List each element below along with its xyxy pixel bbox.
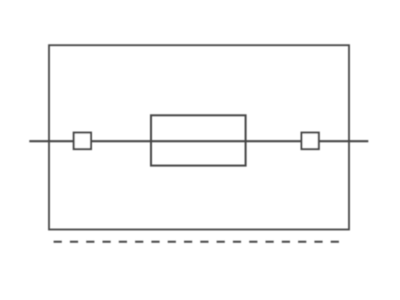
left clamp contact square: [74, 133, 91, 150]
dashed mounting-rail line: [54, 241, 341, 243]
right clamp contact square: [302, 133, 319, 150]
terminal block enclosure outline: [49, 45, 349, 229]
wire: horizontal through-conductor: [29, 140, 368, 142]
fuse/component box: [151, 115, 246, 165]
